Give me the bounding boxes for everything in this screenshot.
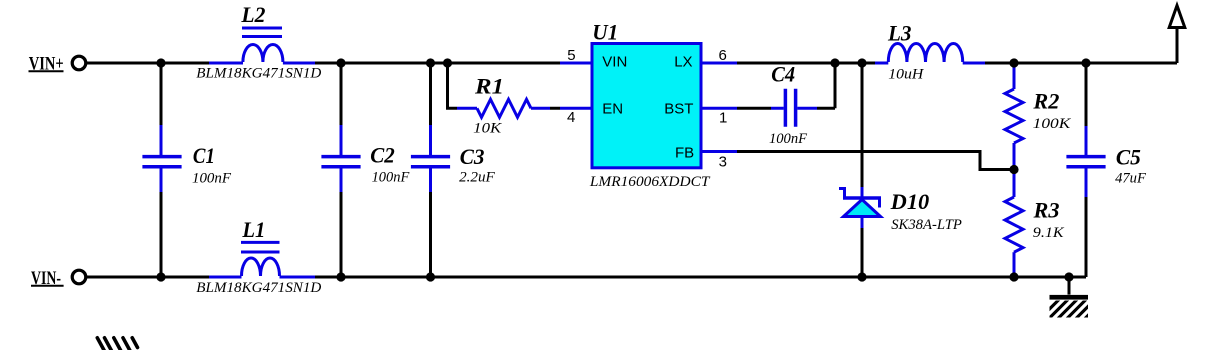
node C3 bottom junction <box>426 272 435 281</box>
inductor L3 <box>875 43 985 63</box>
svg-text:9.1K: 9.1K <box>1033 225 1065 241</box>
pin 6 stub (U1 LX) <box>701 62 737 65</box>
svg-text:10uH: 10uH <box>888 67 924 83</box>
wire VIN- terminal to L1 (bottom rail) <box>86 276 209 279</box>
svg-text:47uF: 47uF <box>1115 170 1147 186</box>
node VOUT arrow port <box>1169 6 1185 28</box>
capacitor C5 <box>1066 63 1105 277</box>
svg-text:6: 6 <box>719 47 727 64</box>
wire VOUT riser <box>1176 27 1179 63</box>
svg-text:C1: C1 <box>193 143 215 168</box>
ground hatch (partial, bottom-left) <box>97 338 137 350</box>
svg-text:LX: LX <box>674 53 692 70</box>
svg-text:EN: EN <box>602 101 623 118</box>
svg-text:L2: L2 <box>240 2 265 27</box>
ground symbol (earth, right) <box>1038 277 1106 321</box>
svg-text:100nF: 100nF <box>372 170 410 186</box>
svg-text:2.2uF: 2.2uF <box>459 170 496 186</box>
svg-text:R2: R2 <box>1032 89 1059 114</box>
svg-text:5: 5 <box>567 47 575 64</box>
pin 1 stub (U1 BST) <box>701 107 737 110</box>
node R2 top junction <box>1009 58 1018 67</box>
capacitor C1 <box>142 63 181 277</box>
resistor R2 <box>1005 63 1023 170</box>
wire VIN+ terminal to L2 (top rail) <box>86 62 209 65</box>
wire L2 to U1 VIN pin (top rail) <box>315 62 560 65</box>
svg-text:100nF: 100nF <box>192 170 232 186</box>
node C2 top junction <box>336 58 345 67</box>
node C4 riser junction <box>830 58 839 67</box>
inductor L1 (ferrite bead) <box>209 242 315 277</box>
node VIN+ terminal circle <box>72 56 86 70</box>
node D10 bottom junction <box>857 272 866 281</box>
svg-text:C2: C2 <box>370 143 395 168</box>
node FB divider junction (R2/R3) <box>1009 165 1018 174</box>
resistor R3 <box>1005 170 1023 278</box>
capacitor C4 <box>771 89 817 127</box>
label VIN+ <box>29 54 64 75</box>
inductor L2 (ferrite bead) <box>209 28 315 63</box>
svg-text:U1: U1 <box>592 20 618 45</box>
svg-text:BLM18KG471SN1D: BLM18KG471SN1D <box>196 65 321 81</box>
wire top rail to R1 and R1 to U1 EN pin <box>448 63 561 108</box>
node switch node junction (D10 top) <box>857 58 866 67</box>
wire switch node to D10 and D10 to ground rail <box>861 63 864 277</box>
svg-text:C4: C4 <box>771 61 795 86</box>
svg-text:SK38A-LTP: SK38A-LTP <box>891 217 962 233</box>
resistor R1 <box>457 99 550 117</box>
node VIN- terminal circle <box>72 270 86 284</box>
svg-text:R1: R1 <box>474 74 504 99</box>
svg-text:C5: C5 <box>1116 144 1141 169</box>
svg-text:L3: L3 <box>887 20 911 45</box>
pin 3 stub (U1 FB) <box>701 150 737 153</box>
svg-text:3: 3 <box>719 154 727 171</box>
wire ground rail (bottom) <box>315 276 1086 279</box>
capacitor C3 <box>411 63 450 277</box>
capacitor C2 <box>321 63 360 277</box>
svg-text:1: 1 <box>719 109 727 126</box>
svg-text:FB: FB <box>675 145 694 162</box>
svg-text:C3: C3 <box>460 144 485 169</box>
wire U1 LX pin to L3 (switch node) <box>737 62 875 65</box>
svg-text:R3: R3 <box>1032 197 1059 222</box>
svg-text:4: 4 <box>567 109 575 126</box>
pin 4 stub (U1 EN) <box>560 107 592 110</box>
svg-text:LMR16006XDDCT: LMR16006XDDCT <box>589 174 711 190</box>
svg-text:100K: 100K <box>1033 116 1072 132</box>
svg-text:VIN: VIN <box>602 53 627 70</box>
wire FB net (U1 FB to R2/R3 divider) <box>737 152 1014 170</box>
node C5 top junction <box>1081 58 1090 67</box>
svg-text:100nF: 100nF <box>769 131 808 147</box>
svg-text:10K: 10K <box>473 121 502 137</box>
node C1 bottom junction <box>156 272 165 281</box>
svg-text:BLM18KG471SN1D: BLM18KG471SN1D <box>196 280 321 296</box>
node ground stub junction <box>1064 272 1073 281</box>
node R3 bottom junction <box>1009 272 1018 281</box>
wire U1 BST pin to C4 and C4 to LX node <box>737 63 835 108</box>
IC U1 LMR16006XDDCT body <box>592 44 701 168</box>
label VIN- <box>31 268 64 289</box>
svg-text:L1: L1 <box>241 217 265 242</box>
wire L3 to VOUT arrow (output rail) <box>985 62 1177 65</box>
svg-text:D10: D10 <box>890 189 930 214</box>
node C3 top junction <box>426 58 435 67</box>
pin 5 stub (U1 VIN) <box>560 62 592 65</box>
svg-text:BST: BST <box>664 101 693 118</box>
node C2 bottom junction <box>336 272 345 281</box>
node C1/VIN+ rail junction <box>156 58 165 67</box>
node R1 branch junction <box>443 58 452 67</box>
diode D10 (schottky) <box>839 187 881 228</box>
